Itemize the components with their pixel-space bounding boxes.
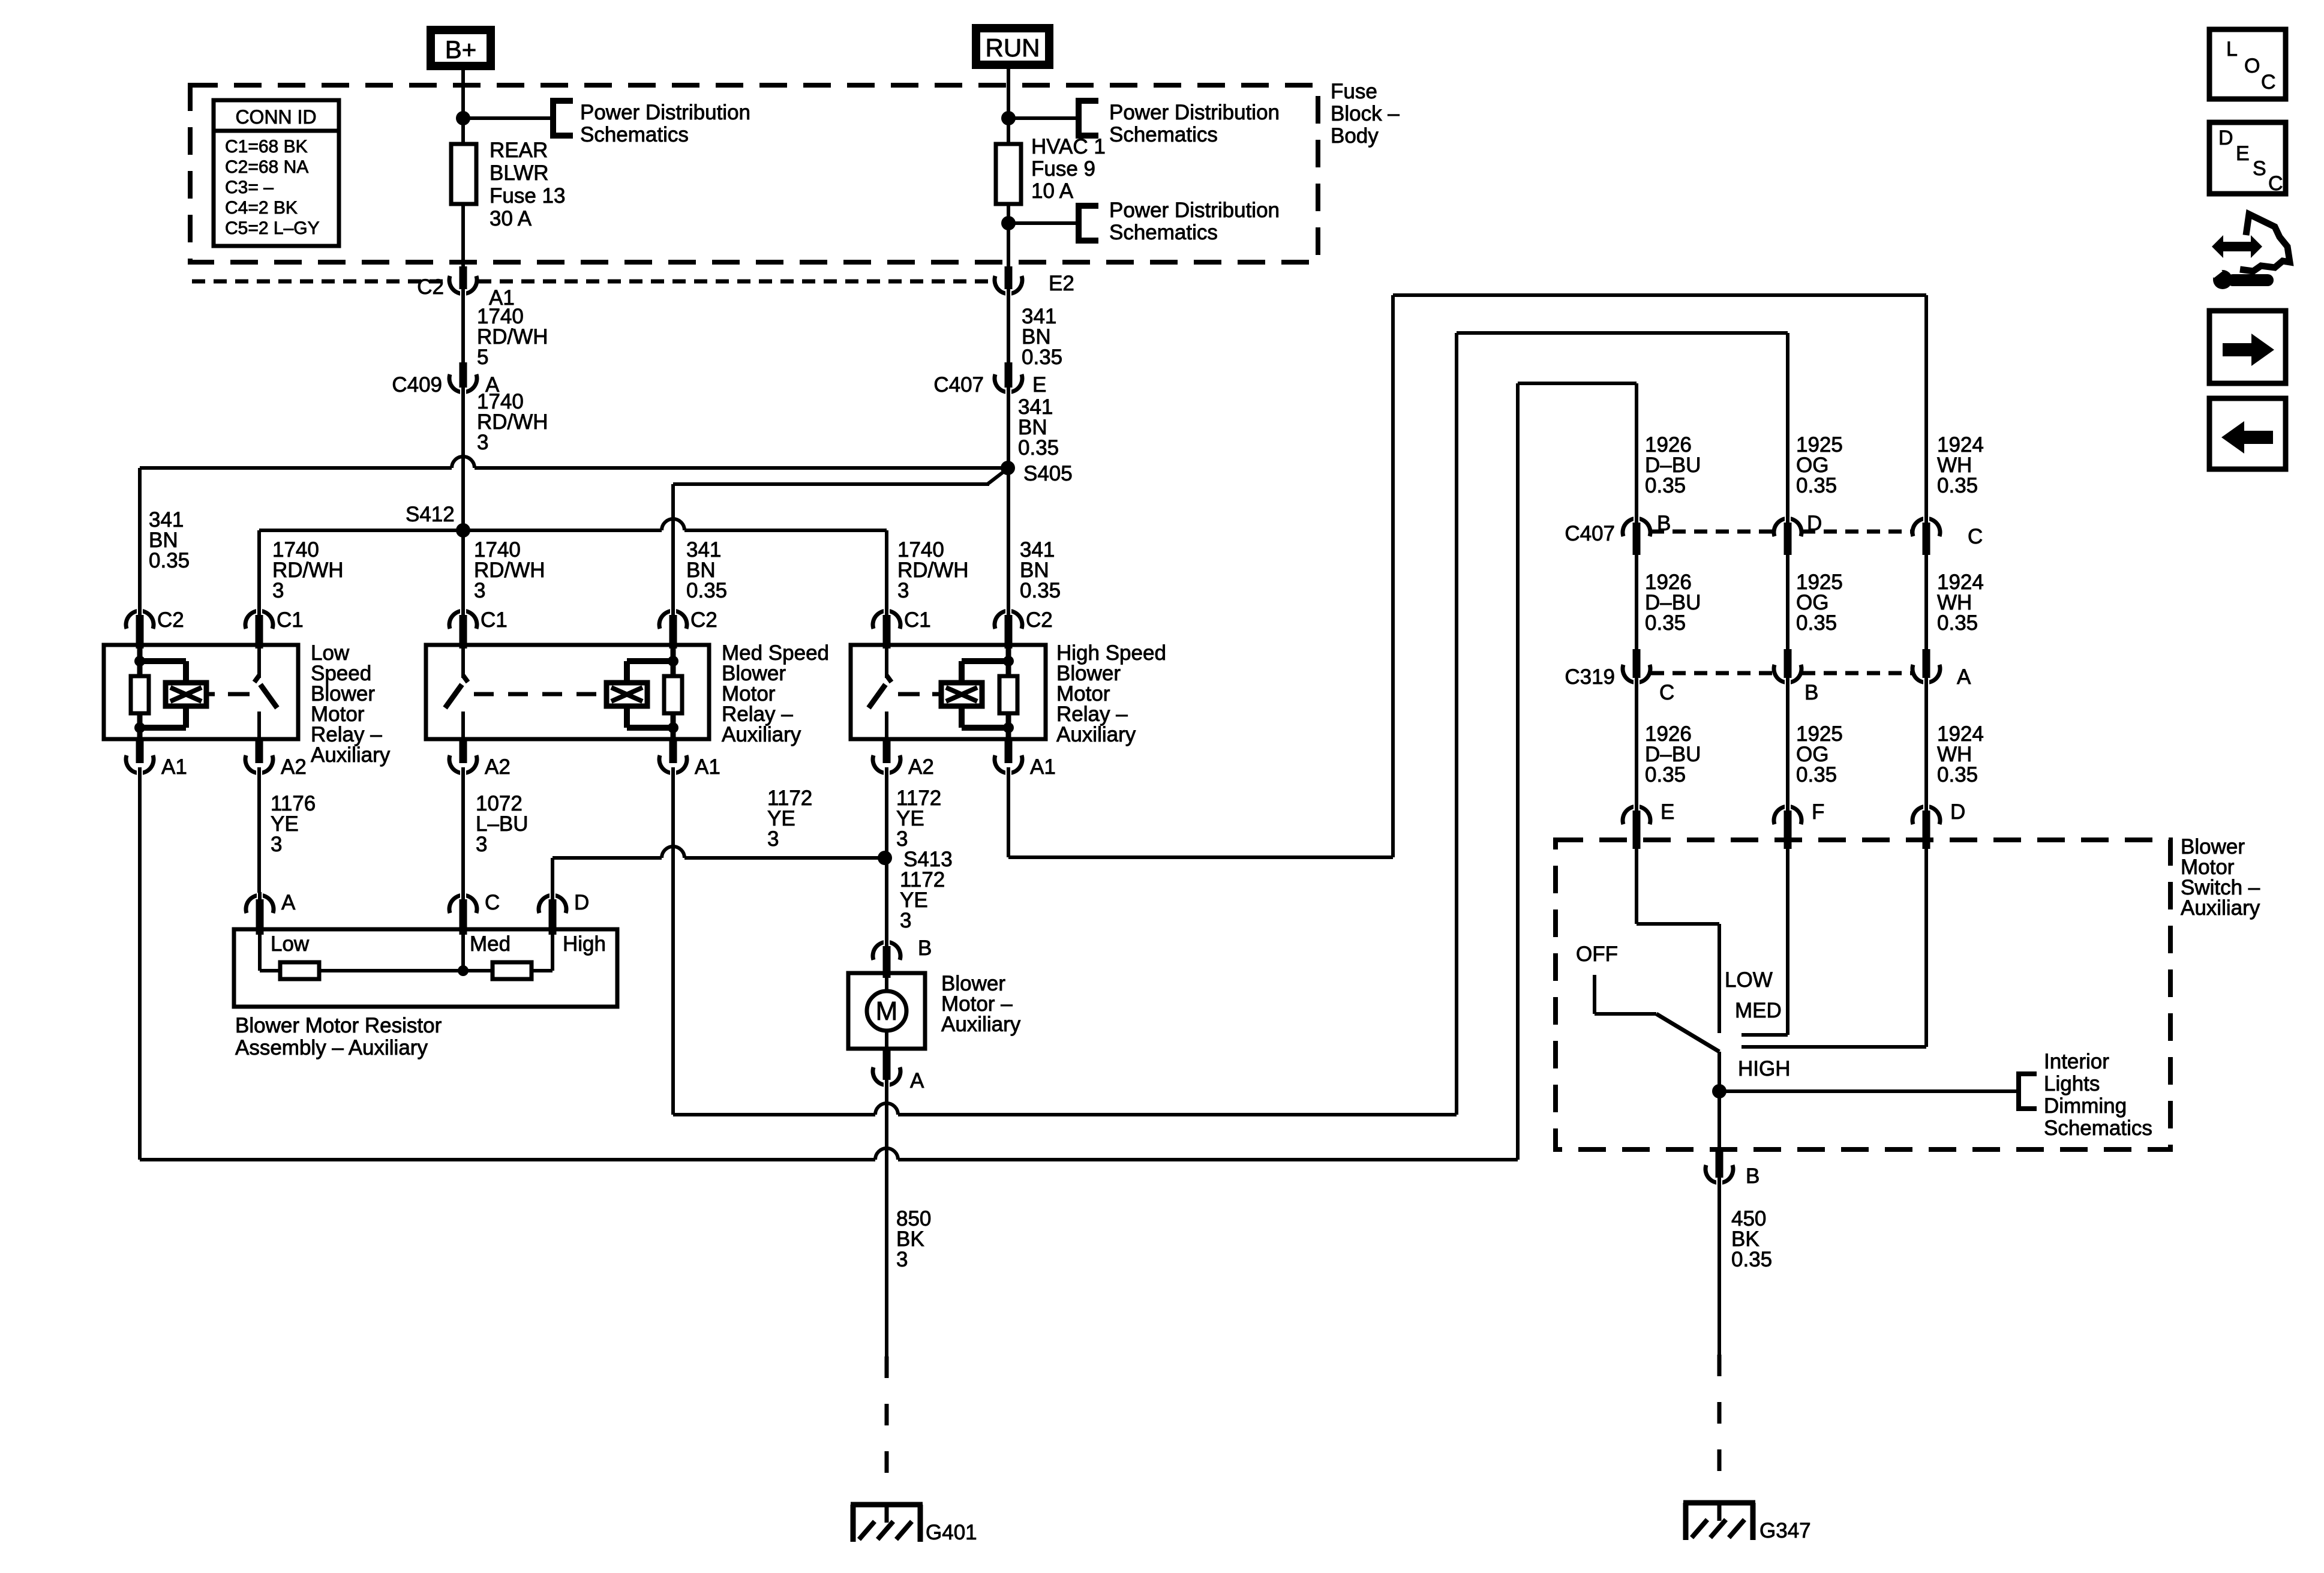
svg-text:Blower Motor Resistor: Blower Motor Resistor (235, 1014, 442, 1037)
svg-text:C1: C1 (481, 608, 508, 632)
svg-text:A: A (1957, 665, 1971, 689)
svg-text:Lights: Lights (2044, 1072, 2100, 1095)
svg-text:3: 3 (476, 833, 487, 856)
svg-text:C: C (485, 891, 500, 914)
svg-text:G347: G347 (1759, 1519, 1811, 1542)
svg-text:C409: C409 (392, 373, 442, 397)
svg-text:Auxiliary: Auxiliary (722, 723, 801, 746)
svg-text:Schematics: Schematics (1109, 123, 1218, 146)
svg-text:Dimming: Dimming (2044, 1094, 2127, 1118)
svg-text:MED: MED (1735, 999, 1782, 1022)
svg-text:BLWR: BLWR (490, 161, 549, 185)
svg-text:0.35: 0.35 (1937, 763, 1978, 786)
svg-text:E: E (2236, 142, 2250, 165)
svg-text:A: A (910, 1069, 924, 1092)
svg-text:S412: S412 (406, 503, 455, 526)
svg-text:0.35: 0.35 (686, 579, 727, 602)
svg-text:Schematics: Schematics (2044, 1116, 2152, 1140)
svg-text:L: L (2226, 38, 2238, 61)
svg-text:C1: C1 (277, 608, 304, 632)
svg-text:Power Distribution: Power Distribution (580, 101, 750, 124)
svg-text:3: 3 (767, 827, 779, 851)
svg-text:E: E (1032, 373, 1046, 397)
svg-text:C319: C319 (1565, 665, 1615, 689)
svg-text:C5=2 L–GY: C5=2 L–GY (225, 218, 320, 238)
svg-text:M: M (876, 996, 898, 1026)
svg-text:Body: Body (1331, 124, 1379, 148)
svg-text:E2: E2 (1049, 272, 1074, 295)
svg-text:Auxiliary: Auxiliary (311, 743, 391, 767)
svg-text:0.35: 0.35 (1731, 1248, 1772, 1271)
svg-text:C407: C407 (1565, 522, 1615, 545)
svg-text:C: C (1659, 681, 1674, 704)
svg-text:A: A (281, 891, 296, 914)
svg-text:B+: B+ (445, 35, 477, 64)
svg-text:F: F (1812, 800, 1824, 824)
svg-text:0.35: 0.35 (1937, 474, 1978, 497)
svg-text:O: O (2244, 55, 2260, 77)
svg-text:3: 3 (271, 833, 282, 856)
svg-text:C2: C2 (417, 275, 444, 299)
svg-text:A2: A2 (485, 755, 511, 779)
svg-text:Power Distribution: Power Distribution (1109, 101, 1280, 124)
svg-text:Assembly – Auxiliary: Assembly – Auxiliary (235, 1036, 428, 1059)
svg-text:C: C (2268, 172, 2283, 195)
svg-text:High: High (563, 932, 606, 956)
svg-text:Block –: Block – (1331, 102, 1400, 125)
svg-text:0.35: 0.35 (1645, 474, 1686, 497)
svg-text:30 A: 30 A (490, 207, 532, 230)
svg-text:C2: C2 (157, 608, 184, 632)
svg-text:0.35: 0.35 (1645, 763, 1686, 786)
svg-text:C1: C1 (904, 608, 931, 632)
svg-text:C4=2 BK: C4=2 BK (225, 198, 298, 218)
svg-text:E: E (1661, 800, 1674, 824)
svg-text:A2: A2 (908, 755, 934, 779)
svg-text:0.35: 0.35 (1022, 346, 1062, 369)
svg-text:0.35: 0.35 (1018, 436, 1059, 460)
svg-text:0.35: 0.35 (1796, 611, 1837, 635)
svg-text:0.35: 0.35 (1796, 474, 1837, 497)
svg-text:3: 3 (900, 909, 911, 932)
svg-text:HVAC 1: HVAC 1 (1031, 135, 1106, 158)
svg-text:S: S (2253, 157, 2266, 180)
svg-text:A1: A1 (161, 755, 187, 779)
svg-text:Interior: Interior (2044, 1050, 2109, 1073)
svg-text:C407: C407 (933, 373, 984, 397)
svg-text:G401: G401 (926, 1521, 977, 1544)
svg-text:Schematics: Schematics (580, 123, 689, 146)
svg-text:Fuse 13: Fuse 13 (490, 184, 565, 208)
svg-text:HIGH: HIGH (1738, 1057, 1791, 1080)
svg-text:Low: Low (271, 932, 310, 956)
svg-text:3: 3 (896, 1248, 908, 1271)
svg-text:0.35: 0.35 (1645, 611, 1686, 635)
svg-text:C3= –: C3= – (225, 178, 274, 197)
svg-text:REAR: REAR (490, 139, 548, 162)
svg-text:Fuse 9: Fuse 9 (1031, 157, 1095, 181)
svg-text:A2: A2 (281, 755, 307, 779)
svg-text:3: 3 (477, 431, 488, 454)
svg-text:0.35: 0.35 (1796, 763, 1837, 786)
svg-text:S405: S405 (1023, 462, 1073, 485)
svg-text:B: B (1746, 1164, 1759, 1188)
svg-text:D: D (574, 891, 589, 914)
svg-text:D: D (1950, 800, 1965, 824)
svg-text:Fuse: Fuse (1331, 80, 1377, 103)
svg-text:3: 3 (272, 579, 284, 602)
svg-text:3: 3 (897, 579, 909, 602)
svg-text:RUN: RUN (986, 34, 1040, 62)
svg-text:B: B (918, 936, 932, 960)
svg-text:C: C (2261, 71, 2276, 94)
svg-text:0.35: 0.35 (1020, 579, 1061, 602)
svg-text:10 A: 10 A (1031, 179, 1074, 203)
svg-text:Med: Med (470, 932, 511, 956)
svg-text:CONN ID: CONN ID (235, 106, 316, 128)
svg-text:Schematics: Schematics (1109, 221, 1218, 244)
svg-text:C1=68 BK: C1=68 BK (225, 137, 308, 157)
svg-text:LOW: LOW (1725, 968, 1773, 992)
svg-text:3: 3 (474, 579, 485, 602)
svg-text:C2=68 NA: C2=68 NA (225, 157, 308, 177)
svg-text:Power Distribution: Power Distribution (1109, 199, 1280, 222)
svg-text:0.35: 0.35 (149, 549, 190, 572)
svg-text:0.35: 0.35 (1937, 611, 1978, 635)
svg-text:Auxiliary: Auxiliary (1056, 723, 1136, 746)
svg-text:5: 5 (477, 346, 488, 369)
svg-text:C2: C2 (1026, 608, 1053, 632)
svg-text:OFF: OFF (1576, 942, 1618, 966)
svg-text:D: D (2218, 127, 2233, 149)
svg-text:C: C (1968, 525, 1983, 548)
svg-text:Auxiliary: Auxiliary (941, 1013, 1021, 1036)
svg-text:C2: C2 (690, 608, 717, 632)
svg-text:Auxiliary: Auxiliary (2181, 896, 2260, 920)
svg-text:A1: A1 (1030, 755, 1056, 779)
svg-text:A1: A1 (695, 755, 720, 779)
svg-text:B: B (1804, 681, 1818, 704)
